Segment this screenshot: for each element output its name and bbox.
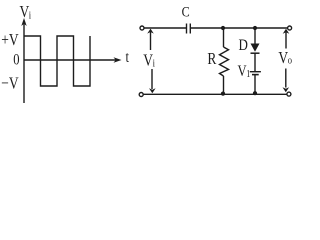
svg-text:i: i <box>29 10 32 22</box>
svg-text:1: 1 <box>246 68 250 79</box>
svg-text:o: o <box>288 55 292 67</box>
svg-text:+V: +V <box>1 31 18 50</box>
svg-text:C: C <box>182 3 190 20</box>
svg-text:t: t <box>126 49 130 67</box>
svg-text:V: V <box>20 3 30 22</box>
svg-text:0: 0 <box>13 51 19 69</box>
svg-text:D: D <box>239 37 249 55</box>
svg-text:V: V <box>278 48 288 67</box>
svg-text:R: R <box>207 50 217 69</box>
svg-text:i: i <box>153 58 156 70</box>
svg-text:−V: −V <box>1 74 18 93</box>
svg-text:V: V <box>143 51 153 70</box>
